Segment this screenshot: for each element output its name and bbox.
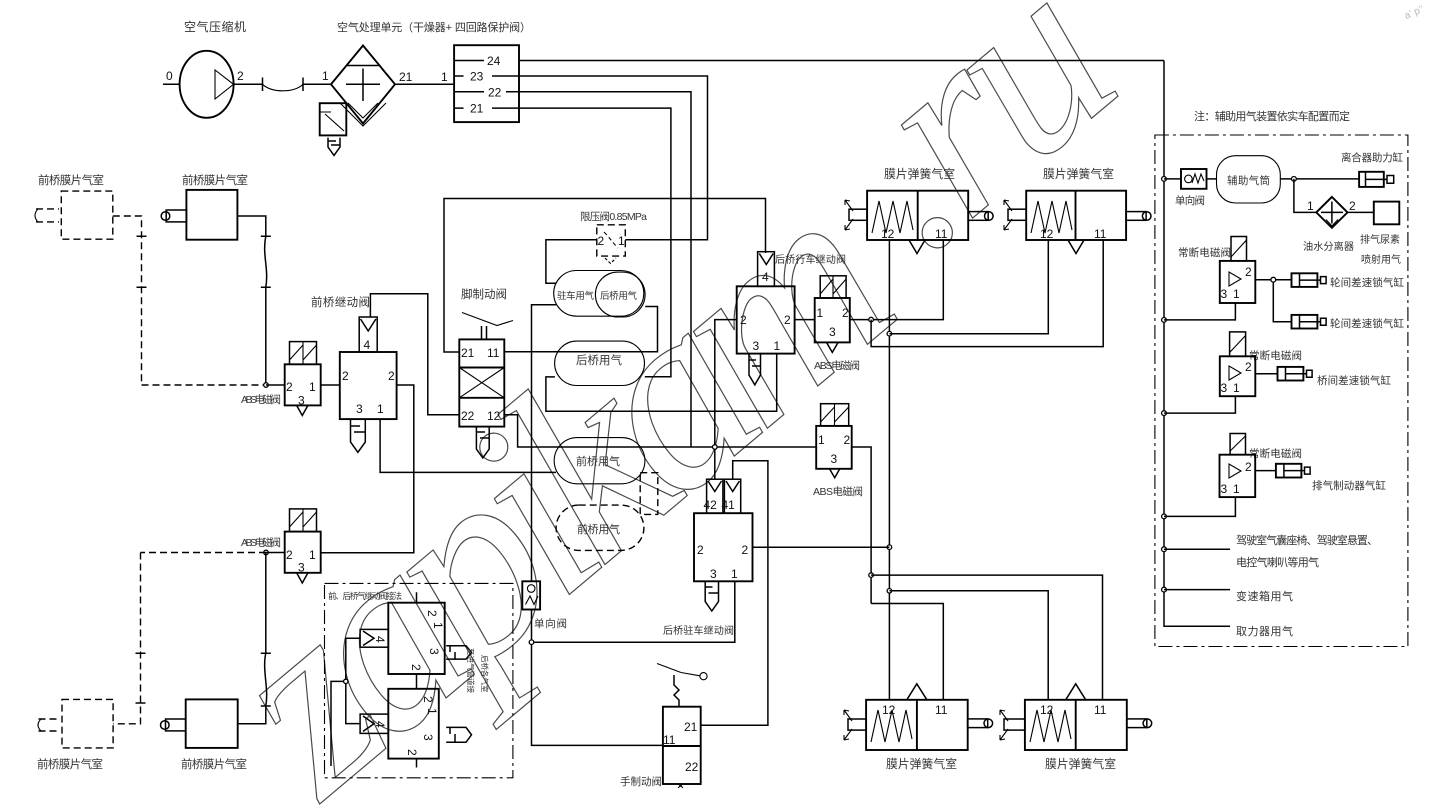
node bus junction 3: [1162, 411, 1167, 416]
front tank optional (dashed): [556, 505, 644, 550]
svg-text:后桥各气室: 后桥各气室: [480, 655, 490, 693]
clutch booster cylinder: [1359, 172, 1394, 187]
wire dryer to protection valve port 1: [395, 70, 454, 84]
svg-text:ABS电磁阀: ABS电磁阀: [813, 485, 863, 498]
parking relay valve label: [663, 624, 734, 637]
front axle chamber dashed (top): [35, 191, 113, 239]
node bus junction 1: [1162, 177, 1167, 182]
node junction chamber feed A: [869, 317, 874, 322]
inset detail box label: [328, 591, 402, 601]
dashed connector box at front tank: [640, 473, 658, 515]
svg-text:4: 4: [364, 338, 371, 352]
spring chamber B2 label: [1045, 757, 1116, 771]
svg-text:1: 1: [441, 70, 448, 84]
ABS solenoid valve R2 label: [813, 485, 863, 498]
wire foot valve 11 to rear tank small: [504, 307, 657, 352]
wire compressor to dryer with hose: [234, 78, 332, 92]
inset relay valve A: [360, 603, 445, 674]
svg-text:轮间差速锁气缸: 轮间差速锁气缸: [1330, 276, 1405, 289]
svg-text:常断电磁阀: 常断电磁阀: [1249, 349, 1302, 362]
spring chamber T1: [845, 191, 993, 254]
wire spring line chain (top chamber1 port12 down): [888, 240, 890, 700]
auxiliary tank: [1217, 156, 1281, 203]
air compressor: [163, 51, 244, 118]
pressure limiting valve label: [580, 210, 647, 223]
svg-text:2: 2: [1245, 360, 1252, 374]
wire spring branch to top chamber2 port12: [889, 240, 1048, 334]
svg-text:3: 3: [427, 648, 441, 655]
parking relay valve: [694, 479, 753, 581]
svg-text:11: 11: [1094, 227, 1107, 241]
svg-text:2: 2: [405, 749, 419, 756]
rear tank small: [595, 272, 645, 317]
wire top solid chamber to ABS junction: [237, 216, 270, 385]
svg-text:2: 2: [388, 369, 395, 383]
svg-text:1: 1: [818, 433, 825, 447]
wire junction A to top chamber2 port11: [871, 240, 1103, 347]
wheel diff lock cylinder 1: [1292, 273, 1327, 287]
svg-text:脚制动阀: 脚制动阀: [461, 287, 507, 301]
svg-text:后桥用气: 后桥用气: [600, 290, 637, 302]
svg-text:2: 2: [697, 543, 704, 557]
foot brake valve label: [461, 287, 507, 301]
front relay exhaust: [351, 420, 366, 452]
spring chamber T2: [1004, 191, 1151, 254]
svg-text:前桥继动阀: 前桥继动阀: [311, 295, 370, 309]
svg-text:油水分离器: 油水分离器: [1303, 240, 1354, 253]
wire rear relay port2R to ABS valve R1: [795, 319, 815, 321]
front axle relay valve: [340, 317, 397, 419]
air compressor label: [184, 19, 246, 34]
svg-text:前桥用气: 前桥用气: [576, 454, 620, 468]
spring chamber T2 label: [1043, 167, 1114, 181]
svg-text:1: 1: [731, 567, 738, 581]
svg-text:ABS电磁阀: ABS电磁阀: [241, 393, 281, 406]
NC solenoid valve P1 label: [1178, 246, 1231, 259]
svg-text:后桥用气: 后桥用气: [576, 353, 623, 367]
parking tank: [554, 271, 644, 317]
svg-text:4: 4: [373, 721, 387, 728]
svg-text:前、后桥气继动阀接法: 前、后桥气继动阀接法: [328, 591, 402, 601]
svg-text:4: 4: [762, 270, 769, 284]
node junction service-parking: [713, 445, 718, 450]
svg-text:膜片弹簧气室: 膜片弹簧气室: [1043, 167, 1114, 181]
wire circuit 23 to pressure limiting valve: [519, 76, 708, 240]
panel check valve: [1164, 169, 1217, 189]
node junction P1: [1271, 277, 1276, 282]
wheel diff lock cylinder 2: [1292, 315, 1327, 329]
wire P1 to wheel diff lock cylinders: [1255, 280, 1291, 322]
svg-text:喷射用气: 喷射用气: [1361, 253, 1401, 266]
ABS solenoid valve L2 label: [241, 536, 281, 549]
svg-text:3: 3: [831, 452, 838, 466]
wire parking relay port2R to spring line: [753, 546, 890, 548]
svg-text:空气压缩机: 空气压缩机: [184, 19, 246, 34]
wire stub gearbox: [1164, 589, 1230, 591]
svg-text:前桥用气: 前桥用气: [577, 522, 620, 536]
PTO air text: [1236, 624, 1293, 638]
svg-text:23: 23: [470, 70, 484, 84]
dryer drain box: [320, 103, 347, 135]
NC solenoid valve P3 label: [1249, 447, 1302, 460]
axle diff lock cylinder label: [1317, 374, 1392, 387]
node junction inset: [344, 679, 348, 683]
inset note text (rotated): [466, 648, 490, 693]
pressure limiting valve (dashed): [597, 225, 626, 264]
urea injection air box: [1348, 202, 1400, 225]
spring chamber B1: [844, 684, 993, 750]
svg-text:ABS电磁阀: ABS电磁阀: [814, 359, 860, 372]
front axle chamber solid (top): [161, 190, 237, 240]
check valve label: [534, 617, 567, 630]
svg-text:至进气管道接: 至进气管道接: [466, 648, 476, 693]
node junction front ABS lower: [264, 550, 269, 555]
ABS solenoid valve R1: [815, 276, 850, 353]
svg-text:限压阀0.85MPa: 限压阀0.85MPa: [580, 210, 647, 223]
ABS solenoid valve R2: [816, 404, 852, 478]
svg-text:3: 3: [356, 402, 363, 416]
front axle relay valve label: [311, 295, 370, 309]
NC solenoid valve P2 label: [1249, 349, 1302, 362]
svg-text:22: 22: [685, 760, 699, 774]
svg-text:2: 2: [598, 234, 605, 248]
spring chamber T1 label: [884, 167, 955, 181]
svg-text:2: 2: [421, 696, 435, 703]
svg-text:3: 3: [710, 567, 717, 581]
svg-text:膜片弹簧气室: 膜片弹簧气室: [1045, 757, 1116, 771]
svg-text:电控气喇叭等用气: 电控气喇叭等用气: [1236, 555, 1319, 569]
svg-text:1: 1: [1233, 482, 1240, 496]
svg-text:2: 2: [409, 664, 423, 671]
svg-text:辅助气筒: 辅助气筒: [1227, 174, 1270, 187]
front axle chamber dashed label (top): [38, 173, 104, 187]
svg-text:2: 2: [286, 548, 293, 562]
svg-text:前桥膜片气室: 前桥膜片气室: [182, 173, 248, 187]
parking relay exhaust: [705, 581, 718, 611]
NC solenoid valve P3: [1220, 434, 1256, 498]
wire P3 port1 to bus: [1164, 497, 1235, 516]
svg-text:1: 1: [377, 402, 384, 416]
dashed wire top dashed chamber to ABS junction: [113, 216, 266, 385]
NC solenoid valve P1: [1220, 237, 1256, 304]
wire circuit 24 to auxiliary panel: [519, 60, 1164, 62]
svg-text:2: 2: [740, 313, 747, 327]
svg-text:12: 12: [881, 227, 895, 241]
node bus junction 2: [1162, 318, 1167, 323]
svg-text:3: 3: [753, 339, 760, 353]
oil-water separator label: [1303, 240, 1354, 253]
wire foot valve 22 to front relay port 4: [370, 294, 459, 415]
svg-text:1: 1: [1307, 199, 1314, 213]
four-circuit protection valve block: [454, 45, 519, 122]
svg-text:4: 4: [373, 636, 387, 643]
front axle chamber solid label (bottom): [181, 757, 247, 771]
svg-text:ABS电磁阀: ABS电磁阀: [241, 536, 281, 549]
ABS solenoid valve L2: [285, 509, 321, 583]
svg-text:2: 2: [286, 380, 293, 394]
front axle chamber dashed (bottom): [38, 699, 113, 748]
foot brake valve: [459, 313, 513, 427]
svg-text:3: 3: [829, 325, 836, 339]
svg-text:24: 24: [487, 54, 501, 68]
wire ABS L1 to front relay: [321, 384, 340, 386]
svg-text:1: 1: [1233, 381, 1240, 395]
wire tank to clutch cylinder: [1280, 178, 1359, 180]
svg-text:3: 3: [1221, 482, 1228, 496]
svg-text:变速箱用气: 变速箱用气: [1236, 589, 1293, 603]
node bus junction 6: [1162, 587, 1167, 592]
ABS solenoid valve L1: [285, 342, 321, 416]
svg-text:11: 11: [935, 227, 948, 241]
wire circuit 21 to rear tank: [519, 108, 671, 377]
inset wires: [331, 592, 417, 767]
svg-text:驻车用气: 驻车用气: [557, 290, 594, 302]
svg-text:取力器用气: 取力器用气: [1236, 624, 1293, 638]
wire check valve to hand brake port11: [532, 610, 663, 746]
svg-text:2: 2: [842, 306, 849, 320]
svg-text:1: 1: [309, 380, 316, 394]
svg-text:2: 2: [1245, 265, 1252, 279]
svg-text:22: 22: [488, 86, 502, 100]
front tank: [554, 438, 645, 484]
svg-text:21: 21: [461, 346, 475, 360]
wire foot valve 12 service line to ABS valve: [504, 415, 816, 447]
svg-text:离合器助力缸: 离合器助力缸: [1341, 151, 1404, 164]
air dryer unit U-dryer: [322, 46, 413, 127]
wire front relay port1 to front tank: [380, 419, 556, 472]
wire ABS R2 out to bottom chambers port11: [852, 447, 871, 604]
hand brake valve: [657, 664, 707, 788]
rear service relay valve: [737, 252, 795, 354]
inset relay valve B: [360, 689, 439, 759]
wire tail to bottom chamber1 port11: [871, 604, 943, 700]
wire junction to oil separator: [1294, 179, 1316, 213]
wire P2 to axle diff lock cylinder: [1255, 373, 1277, 375]
node junction spring line upper: [887, 331, 892, 336]
node bus junction 5: [1162, 547, 1167, 552]
auxiliary panel note: [1194, 109, 1350, 123]
svg-text:前桥膜片气室: 前桥膜片气室: [38, 173, 104, 187]
svg-text:22: 22: [461, 409, 475, 423]
node bus junction 4: [1162, 514, 1167, 519]
wire P2 port1 to bus: [1164, 396, 1235, 413]
node junction front ABS upper: [264, 383, 269, 388]
svg-text:21: 21: [470, 102, 484, 116]
svg-text:3: 3: [298, 394, 305, 408]
spring chamber B1 label: [886, 757, 957, 771]
ABS solenoid valve L1 label: [241, 393, 281, 406]
node junction spring line lower: [887, 589, 892, 594]
svg-text:常断电磁阀: 常断电磁阀: [1249, 447, 1302, 460]
wire rear tank to relay supply port 1: [546, 354, 777, 412]
rear relay exhaust: [749, 354, 761, 385]
svg-text:2: 2: [342, 369, 349, 383]
svg-text:1: 1: [322, 69, 329, 83]
svg-text:单向阀: 单向阀: [534, 617, 567, 630]
svg-text:12: 12: [487, 409, 501, 423]
svg-text:前桥膜片气室: 前桥膜片气室: [181, 757, 247, 771]
svg-text:排气制动器气缸: 排气制动器气缸: [1312, 479, 1387, 492]
front axle chamber solid (bottom): [161, 699, 238, 748]
air dryer unit label: [337, 20, 531, 34]
node junction bottom chamber feed: [869, 573, 874, 578]
foot brake valve exhaust: [476, 427, 489, 458]
node junction check valve: [529, 640, 534, 645]
wheel diff lock cylinder 2 label: [1330, 317, 1405, 330]
svg-text:后桥驻车继动阀: 后桥驻车继动阀: [663, 624, 734, 637]
wire front relay port2 to ABS valve L2: [321, 385, 414, 553]
svg-text:12: 12: [882, 703, 896, 717]
front axle chamber solid label (top): [182, 173, 248, 187]
svg-text:21: 21: [399, 70, 413, 84]
exhaust brake cylinder: [1276, 464, 1310, 478]
gearbox air text: [1236, 589, 1293, 603]
wire parking relay port41 to hand brake valve: [701, 461, 768, 726]
svg-text:2: 2: [844, 433, 851, 447]
svg-text:常断电磁阀: 常断电磁阀: [1178, 246, 1231, 259]
svg-text:3: 3: [1221, 287, 1228, 301]
spring chamber B2: [1000, 684, 1152, 750]
svg-text:11: 11: [1094, 703, 1107, 717]
rear service relay valve label: [775, 253, 846, 266]
wire spring branch to bottom chamber2 port12: [889, 591, 1048, 700]
svg-text:1: 1: [309, 548, 316, 562]
clutch booster cylinder label: [1341, 151, 1404, 164]
svg-text:1: 1: [431, 622, 445, 629]
wire parking tank outlet to check valve: [532, 305, 557, 582]
svg-text:驾驶室气囊座椅、驾驶室悬置、: 驾驶室气囊座椅、驾驶室悬置、: [1236, 533, 1378, 547]
svg-text:1: 1: [774, 339, 781, 353]
dryer drain exhaust: [328, 138, 340, 156]
wire stub cab air: [1164, 548, 1230, 550]
svg-text:11: 11: [487, 346, 500, 360]
svg-text:注：辅助用气装置依实车配置而定: 注：辅助用气装置依实车配置而定: [1194, 109, 1350, 123]
svg-text:前桥膜片气室: 前桥膜片气室: [37, 757, 103, 771]
front axle chamber dashed label (bottom): [37, 757, 103, 771]
svg-text:2: 2: [237, 69, 244, 83]
svg-text:空气处理单元（干燥器+ 四回路保护阀）: 空气处理单元（干燥器+ 四回路保护阀）: [337, 20, 531, 34]
svg-text:2: 2: [1245, 460, 1252, 474]
wire foot valve 21 to rear relay port 4: [444, 199, 766, 353]
urea injection air box labels: [1360, 233, 1401, 266]
svg-text:11: 11: [935, 703, 948, 717]
svg-text:1: 1: [1233, 287, 1240, 301]
dashed wire bottom dashed chamber to junction: [113, 553, 266, 724]
wire P1 port1 to bus: [1164, 303, 1235, 320]
svg-text:2: 2: [784, 313, 791, 327]
svg-text:轮间差速锁气缸: 轮间差速锁气缸: [1330, 317, 1405, 330]
svg-text:2: 2: [1349, 199, 1356, 213]
svg-text:桥间差速锁气缸: 桥间差速锁气缸: [1317, 374, 1392, 387]
wire branch to bottom chamber2 port11: [871, 575, 1102, 700]
svg-text:膜片弹簧气室: 膜片弹簧气室: [884, 167, 955, 181]
node junction spring line mid: [887, 545, 892, 550]
svg-text:42: 42: [704, 498, 718, 512]
wire junction to ABS valve L1: [266, 384, 285, 386]
auxiliary panel border: [1155, 135, 1408, 647]
svg-text:单向阀: 单向阀: [1175, 194, 1205, 207]
ABS solenoid valve R1 label: [814, 359, 860, 372]
svg-text:3: 3: [421, 734, 435, 741]
wire bottom solid chamber to junction: [238, 553, 271, 724]
NC solenoid valve P2: [1220, 332, 1256, 396]
svg-text:12: 12: [1040, 227, 1054, 241]
svg-text:41: 41: [722, 498, 736, 512]
svg-text:后桥行车继动阀: 后桥行车继动阀: [775, 253, 846, 266]
inset valve B exhaust: [446, 727, 471, 742]
svg-text:12: 12: [1040, 703, 1054, 717]
wire rear relay port2L to parking control junction: [715, 320, 737, 480]
svg-text:3: 3: [1221, 381, 1228, 395]
wire parking relay port1 to check valve junction: [532, 581, 735, 642]
svg-text:1: 1: [618, 234, 625, 248]
exhaust brake cylinder label: [1312, 479, 1387, 492]
svg-text:11: 11: [663, 733, 676, 747]
axle diff lock cylinder: [1278, 367, 1313, 381]
svg-text:手制动阀: 手制动阀: [620, 775, 662, 788]
svg-text:0: 0: [166, 69, 173, 83]
svg-text:2: 2: [742, 543, 749, 557]
cab air text lines: [1236, 533, 1378, 569]
svg-text:排气尿素: 排气尿素: [1360, 233, 1400, 246]
oil-water separator: [1307, 197, 1356, 228]
inset detail box border: [325, 583, 513, 777]
panel check valve label: [1175, 194, 1205, 207]
svg-text:1: 1: [817, 306, 824, 320]
wire limiting valve port2 to parking tank: [546, 240, 597, 284]
svg-text:2: 2: [425, 610, 439, 617]
wire ABS R1 out to top chamber1 port11: [850, 240, 944, 320]
svg-text:1: 1: [425, 708, 439, 715]
svg-text:3: 3: [298, 561, 305, 575]
rear tank: [555, 341, 645, 385]
check valve: [522, 581, 540, 609]
svg-text:膜片弹簧气室: 膜片弹簧气室: [886, 757, 957, 771]
hand brake valve label: [620, 775, 662, 788]
node junction aux: [1292, 177, 1297, 182]
wheel diff lock cylinder 1 label: [1330, 276, 1405, 289]
wire junction to ABS L2 port 2: [266, 552, 285, 554]
inset valve A exhaust: [446, 646, 471, 659]
wire P3 to exhaust brake cylinder: [1255, 470, 1276, 472]
wire circuit 22 down to service line: [519, 92, 691, 447]
auxiliary supply bus: [1164, 61, 1230, 627]
svg-text:21: 21: [684, 720, 698, 734]
